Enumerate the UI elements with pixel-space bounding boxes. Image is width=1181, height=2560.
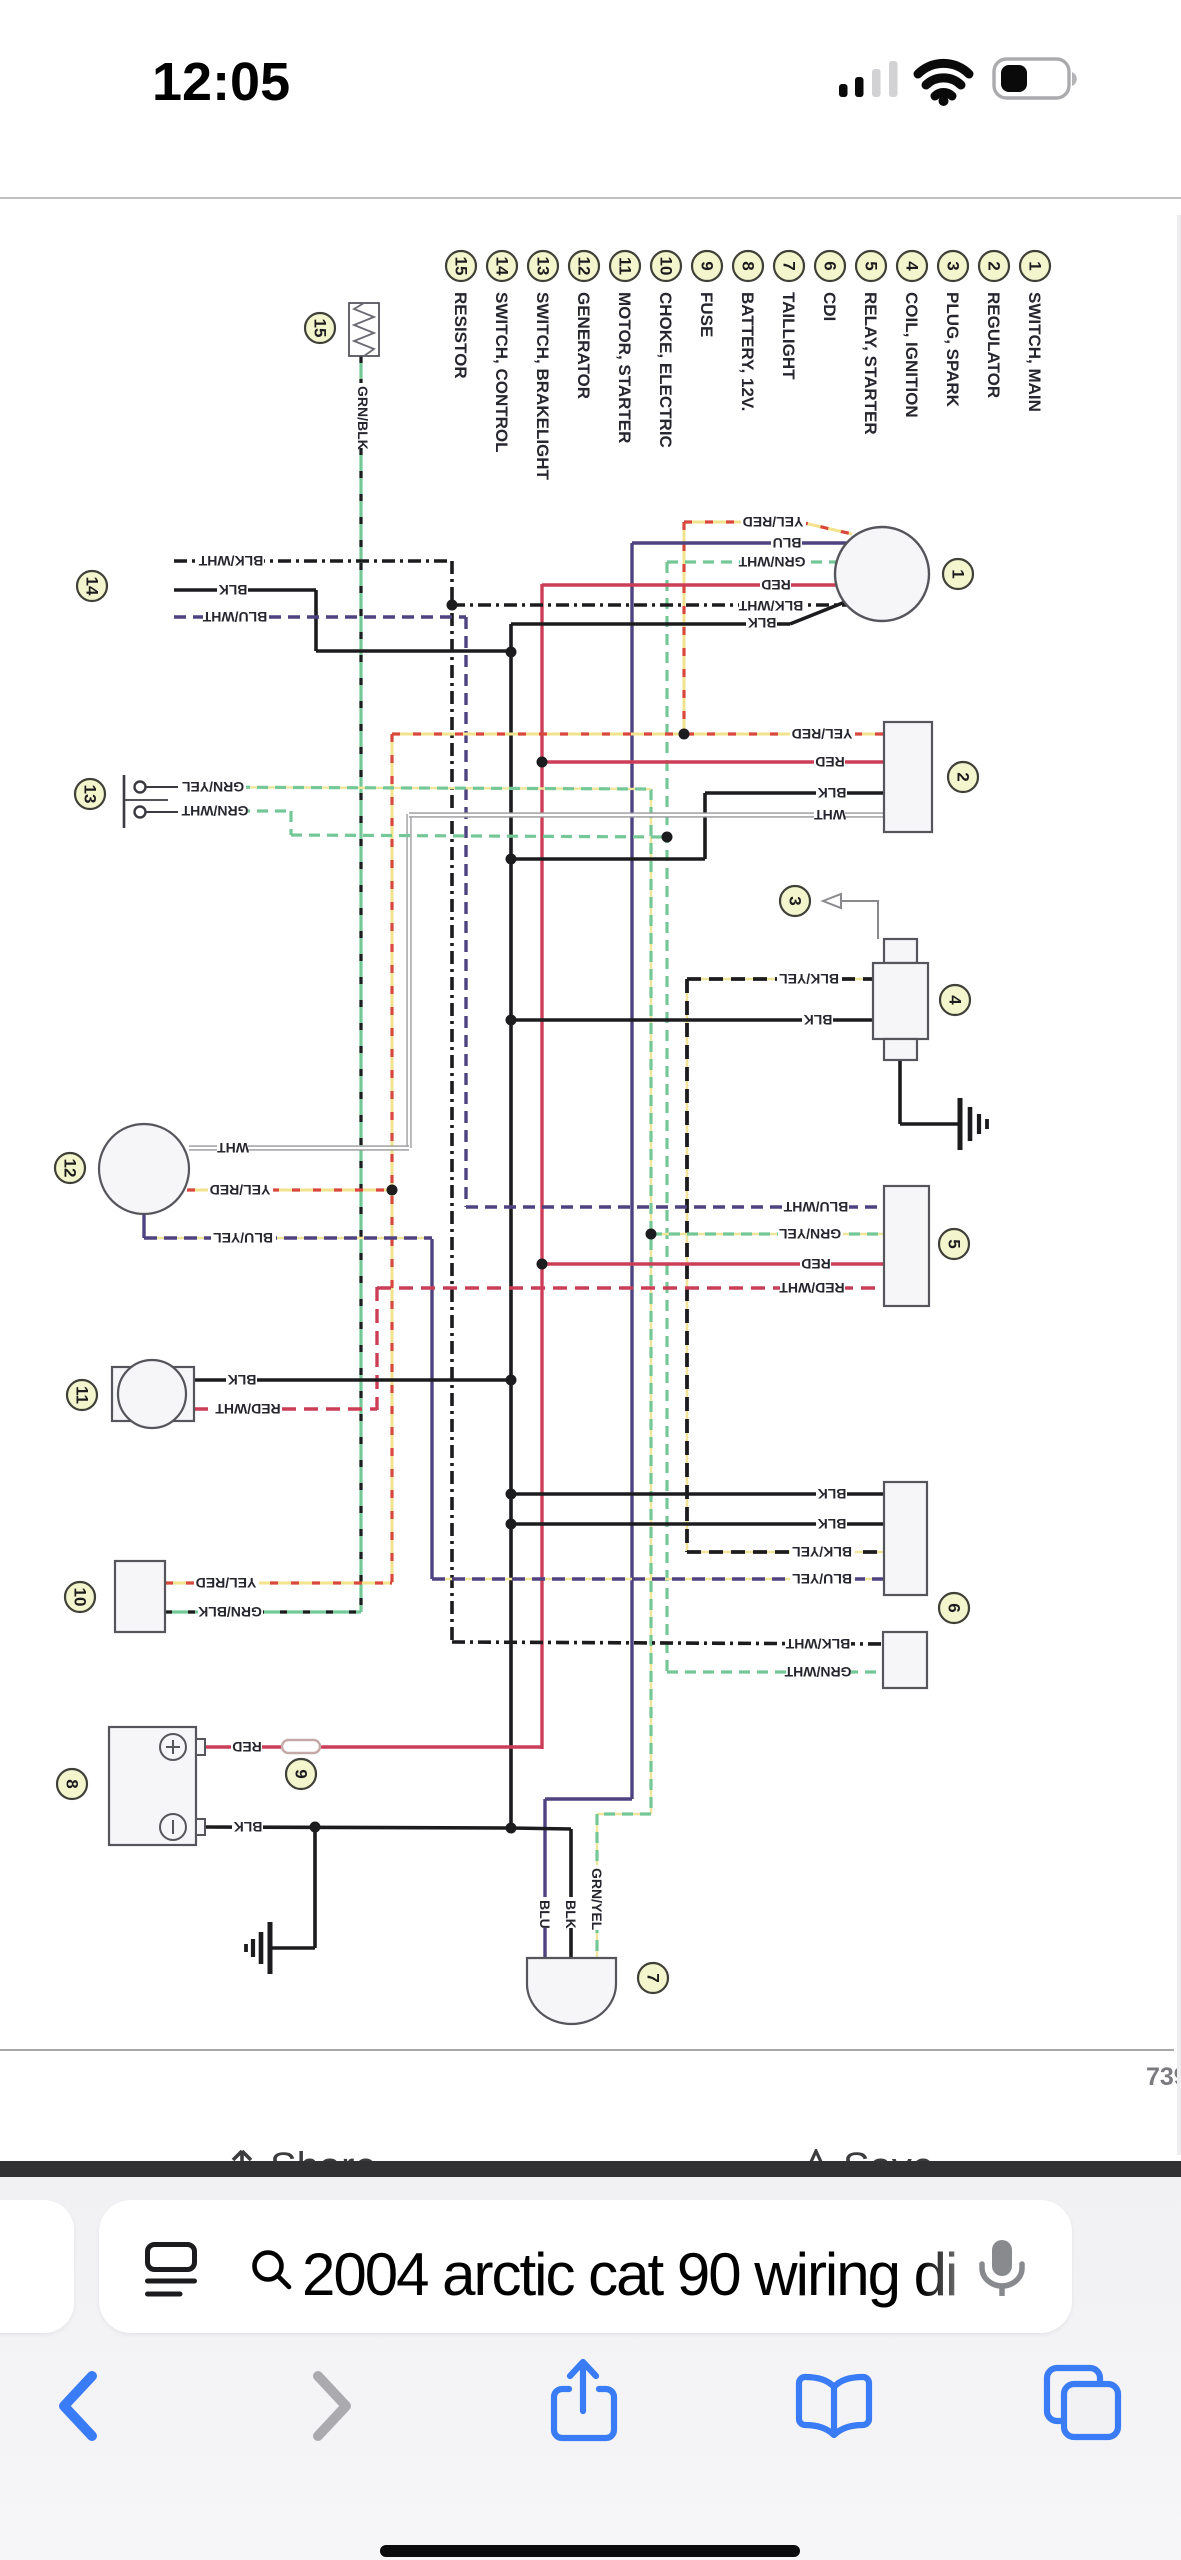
svg-text:RED: RED xyxy=(815,754,845,770)
svg-text:BLK: BLK xyxy=(804,1012,833,1028)
svg-text:GRN/WHT: GRN/WHT xyxy=(181,803,248,819)
svg-text:7: 7 xyxy=(780,261,799,270)
svg-text:14: 14 xyxy=(83,577,102,596)
svg-text:BLK/WHT: BLK/WHT xyxy=(785,1636,850,1652)
svg-text:9: 9 xyxy=(698,261,717,270)
svg-text:9: 9 xyxy=(292,1769,311,1778)
svg-text:RED/WHT: RED/WHT xyxy=(779,1280,845,1296)
svg-text:BLU: BLU xyxy=(773,535,802,551)
svg-text:PLUG, SPARK: PLUG, SPARK xyxy=(943,292,962,408)
svg-text:GRN/YEL: GRN/YEL xyxy=(181,779,244,795)
svg-text:BLU/YEL: BLU/YEL xyxy=(792,1571,852,1587)
svg-text:GRN/YEL: GRN/YEL xyxy=(778,1226,841,1242)
svg-text:GRN/WHT: GRN/WHT xyxy=(738,554,805,570)
svg-text:YEL/RED: YEL/RED xyxy=(792,726,853,742)
svg-text:FUSE: FUSE xyxy=(697,292,716,337)
svg-text:10: 10 xyxy=(71,1588,90,1607)
svg-text:6: 6 xyxy=(945,1603,964,1612)
svg-text:YEL/RED: YEL/RED xyxy=(210,1182,271,1198)
svg-text:7: 7 xyxy=(644,1973,663,1982)
svg-text:2: 2 xyxy=(985,261,1004,270)
svg-text:BLK: BLK xyxy=(748,615,777,631)
svg-text:15: 15 xyxy=(452,257,471,276)
svg-text:BLK/WHT: BLK/WHT xyxy=(738,598,803,614)
svg-text:SWITCH, BRAKELIGHT: SWITCH, BRAKELIGHT xyxy=(533,292,552,481)
svg-text:3: 3 xyxy=(944,261,963,270)
svg-text:10: 10 xyxy=(657,257,676,276)
svg-text:GENERATOR: GENERATOR xyxy=(574,292,593,399)
svg-text:11: 11 xyxy=(616,257,635,275)
svg-text:13: 13 xyxy=(534,257,553,276)
svg-text:8: 8 xyxy=(63,1779,82,1788)
svg-text:YEL/RED: YEL/RED xyxy=(196,1575,257,1591)
svg-text:739: 739 xyxy=(1146,2063,1181,2091)
svg-text:GRN/BLK: GRN/BLK xyxy=(198,1604,262,1620)
svg-text:BLK: BLK xyxy=(818,785,847,801)
svg-text:4: 4 xyxy=(946,995,965,1005)
svg-text:5: 5 xyxy=(945,1239,964,1248)
svg-text:CDI: CDI xyxy=(820,292,839,321)
svg-text:GRN/BLK: GRN/BLK xyxy=(355,386,371,450)
svg-text:BLK/YEL: BLK/YEL xyxy=(779,971,839,987)
svg-text:SWITCH, MAIN: SWITCH, MAIN xyxy=(1025,292,1044,412)
svg-text:BLK: BLK xyxy=(219,582,248,598)
svg-text:13: 13 xyxy=(81,785,100,804)
svg-text:14: 14 xyxy=(493,257,512,276)
svg-text:WHT: WHT xyxy=(814,807,846,823)
svg-text:4: 4 xyxy=(903,261,922,271)
svg-text:RESISTOR: RESISTOR xyxy=(451,292,470,379)
svg-text:REGULATOR: REGULATOR xyxy=(984,292,1003,398)
svg-text:BLK: BLK xyxy=(563,1900,579,1929)
svg-text:BLK/YEL: BLK/YEL xyxy=(792,1544,852,1560)
svg-text:BLU/YEL: BLU/YEL xyxy=(213,1230,273,1246)
svg-text:2: 2 xyxy=(954,772,973,781)
svg-text:BLK: BLK xyxy=(818,1486,847,1502)
svg-text:12: 12 xyxy=(575,257,594,276)
svg-text:6: 6 xyxy=(821,261,840,270)
svg-text:BLK: BLK xyxy=(228,1372,257,1388)
svg-text:BLK: BLK xyxy=(234,1819,263,1835)
svg-text:BLU/WHT: BLU/WHT xyxy=(783,1199,848,1215)
svg-text:GRN/YEL: GRN/YEL xyxy=(589,1868,605,1931)
svg-text:COIL, IGNITION: COIL, IGNITION xyxy=(902,292,921,418)
svg-text:CHOKE, ELECTRIC: CHOKE, ELECTRIC xyxy=(656,292,675,448)
svg-text:RED: RED xyxy=(232,1739,262,1755)
svg-text:3: 3 xyxy=(786,896,805,905)
svg-text:RED: RED xyxy=(801,1256,831,1272)
svg-text:GRN/WHT: GRN/WHT xyxy=(784,1664,851,1680)
svg-text:RED: RED xyxy=(761,577,791,593)
svg-text:TAILLIGHT: TAILLIGHT xyxy=(779,292,798,380)
svg-text:15: 15 xyxy=(311,319,330,338)
svg-text:1: 1 xyxy=(949,569,968,578)
svg-text:BLK/WHT: BLK/WHT xyxy=(198,553,263,569)
svg-text:1: 1 xyxy=(1026,261,1045,270)
svg-text:8: 8 xyxy=(739,261,758,270)
svg-text:WHT: WHT xyxy=(217,1140,249,1156)
svg-text:BLU: BLU xyxy=(537,1900,553,1929)
svg-text:BATTERY, 12V.: BATTERY, 12V. xyxy=(738,292,757,411)
svg-text:SWITCH, CONTROL: SWITCH, CONTROL xyxy=(492,292,511,453)
svg-text:5: 5 xyxy=(862,261,881,270)
svg-text:12: 12 xyxy=(61,1159,80,1178)
svg-text:BLU/WHT: BLU/WHT xyxy=(202,609,267,625)
svg-text:BLK: BLK xyxy=(818,1516,847,1532)
svg-text:YEL/RED: YEL/RED xyxy=(743,514,804,530)
svg-text:11: 11 xyxy=(73,1386,92,1404)
svg-text:MOTOR, STARTER: MOTOR, STARTER xyxy=(615,292,634,443)
svg-text:RELAY, STARTER: RELAY, STARTER xyxy=(861,292,880,435)
svg-text:RED/WHT: RED/WHT xyxy=(215,1401,281,1417)
